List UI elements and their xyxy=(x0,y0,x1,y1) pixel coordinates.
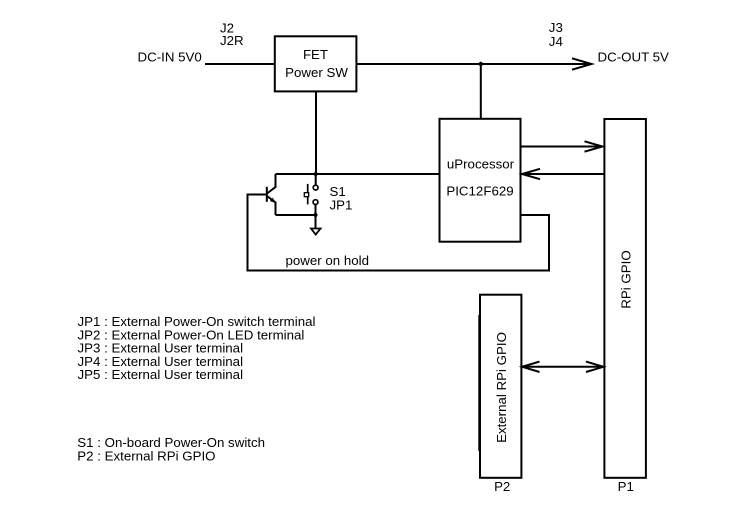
block uProcessor U1 xyxy=(440,119,521,242)
wire rail down to switch S1 top contact xyxy=(315,174,317,185)
arrowhead DC-OUT xyxy=(572,58,592,69)
svg-text:power on hold: power on hold xyxy=(286,253,370,268)
svg-text:uProcessor: uProcessor xyxy=(447,157,515,172)
svg-text:P1: P1 xyxy=(618,479,634,494)
wire P2 to P1 bidirectional xyxy=(524,366,602,368)
wire emitter to switch bottom junction xyxy=(276,214,316,216)
svg-text:P2 : External RPi GPIO: P2 : External RPi GPIO xyxy=(77,448,215,463)
arrowhead into P1 xyxy=(586,362,603,372)
arrowhead into P1 xyxy=(585,141,603,151)
wire FET bottom to switch rail xyxy=(315,91,317,174)
transistor Q1 emitter lead xyxy=(267,196,276,215)
block P1 RPi GPIO xyxy=(604,119,646,478)
svg-text:External RPi GPIO: External RPi GPIO xyxy=(494,332,509,443)
svg-text:Power SW: Power SW xyxy=(285,65,348,80)
svg-text:DC-IN 5V0: DC-IN 5V0 xyxy=(138,50,202,65)
wire FET block to DC-OUT arrow xyxy=(356,63,589,65)
wire DC-IN to FET block xyxy=(205,63,275,65)
svg-text:J3: J3 xyxy=(549,20,563,35)
wire uProcessor to P1 xyxy=(521,146,602,148)
wire P1 to uProcessor xyxy=(524,173,605,175)
wire switch rail to uProcessor left pin xyxy=(276,173,440,175)
wire junction down to uProcessor top pin xyxy=(480,64,482,119)
switch S1 actuator knob xyxy=(304,193,308,197)
svg-text:JP5 : External User terminal: JP5 : External User terminal xyxy=(78,367,244,382)
transistor Q1 base bar xyxy=(266,187,268,202)
svg-text:RPi GPIO: RPi GPIO xyxy=(619,250,634,308)
block FET Power SW xyxy=(275,36,357,91)
wire power-on-hold feedback loop xyxy=(248,195,550,271)
wire switch bottom contact to junction xyxy=(315,205,317,215)
arrowhead into P2 xyxy=(522,362,539,372)
node junction at switch rail xyxy=(314,172,318,176)
switch S1 actuator bar xyxy=(307,184,309,205)
transistor Q1 collector lead xyxy=(267,174,276,194)
arrowhead into uProcessor xyxy=(522,169,540,179)
node junction on 5V rail xyxy=(479,62,483,66)
switch S1 top contact xyxy=(313,185,318,190)
node junction at switch bottom xyxy=(314,213,318,217)
block P2 External RPi GPIO xyxy=(480,295,521,478)
svg-text:J2R: J2R xyxy=(220,33,244,48)
transistor Q1 emitter arrow xyxy=(270,198,276,203)
svg-text:FET: FET xyxy=(303,47,328,62)
ground symbol xyxy=(311,229,321,235)
ground stem xyxy=(315,215,317,228)
svg-text:DC-OUT 5V: DC-OUT 5V xyxy=(598,50,670,65)
svg-text:J4: J4 xyxy=(549,34,563,49)
svg-text:P2: P2 xyxy=(494,479,510,494)
P2 left border doubled segment xyxy=(478,315,480,451)
svg-text:PIC12F629: PIC12F629 xyxy=(446,184,513,199)
switch S1 bottom contact xyxy=(313,200,318,205)
svg-text:JP1: JP1 xyxy=(330,198,353,213)
